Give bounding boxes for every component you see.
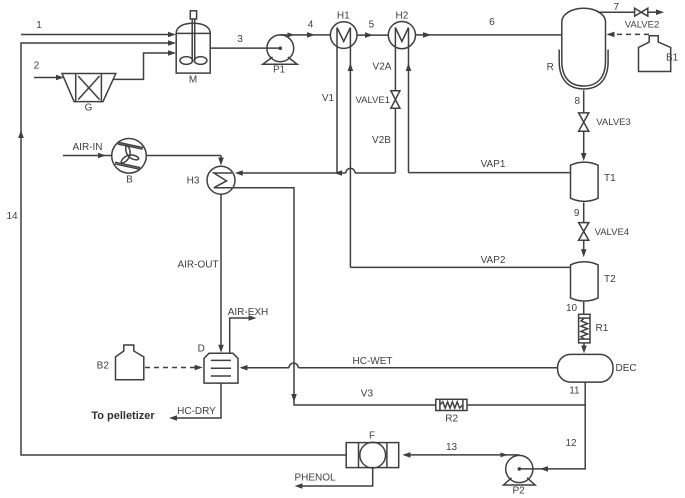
svg-text:B1: B1 [666, 53, 679, 64]
wire AIR-OUT [177, 194, 223, 353]
pump P1 [263, 35, 297, 75]
svg-text:F: F [369, 430, 375, 441]
wire V1 H1 left leg [322, 28, 337, 174]
svg-text:V2B: V2B [372, 135, 391, 146]
wire stream 2 [34, 61, 64, 81]
bottle B2 [97, 345, 144, 380]
svg-text:VALVE1: VALVE1 [355, 95, 390, 106]
blower B [112, 139, 147, 186]
wire V2A valve1 V2B [372, 28, 395, 174]
svg-text:T1: T1 [604, 173, 616, 184]
svg-text:VALVE4: VALVE4 [595, 227, 630, 238]
svg-text:VAP2: VAP2 [481, 255, 506, 266]
wire stream 14 recycle [6, 40, 346, 455]
wire V3 from H3 bottom [233, 188, 585, 405]
wire H3 feed from V1 and V2B [235, 168, 396, 175]
svg-text:AIR-EXH: AIR-EXH [228, 307, 269, 318]
svg-text:DEC: DEC [616, 363, 637, 374]
svg-text:11: 11 [569, 386, 580, 397]
wire stream 3 [210, 34, 282, 50]
bottle B1 [639, 36, 679, 72]
heat exchanger H1 [330, 11, 357, 49]
wire VAP1 riser into H2 [406, 28, 412, 173]
svg-text:H1: H1 [337, 11, 350, 22]
svg-text:B: B [126, 175, 133, 186]
wire AIR-IN [63, 142, 224, 165]
svg-text:12: 12 [565, 438, 577, 449]
dryer D [198, 343, 238, 383]
svg-text:H3: H3 [187, 176, 200, 187]
tank T1 [571, 162, 617, 201]
heat exchanger H3 [187, 166, 235, 194]
valve VALVE1 [355, 91, 399, 109]
wire stream 10 [566, 302, 584, 315]
svg-text:H2: H2 [396, 11, 409, 22]
filter R2 [436, 399, 467, 424]
pump P2 [504, 455, 536, 496]
mixer M [176, 11, 210, 86]
wire stream 7 [598, 2, 664, 15]
svg-text:To pelletizer: To pelletizer [91, 410, 155, 422]
wire B1 feed dashed [607, 32, 653, 38]
svg-text:10: 10 [566, 303, 578, 314]
valve VALVE4 [579, 223, 630, 241]
svg-text:P1: P1 [273, 64, 286, 75]
filter F [346, 430, 399, 468]
svg-text:14: 14 [6, 211, 18, 222]
wire HC-DRY [169, 383, 221, 421]
heat exchanger H2 [388, 11, 415, 49]
tank T2 [571, 262, 617, 301]
svg-text:VAP1: VAP1 [481, 159, 506, 170]
svg-text:1: 1 [36, 20, 42, 31]
svg-text:7: 7 [614, 2, 620, 13]
svg-text:M: M [189, 74, 197, 85]
svg-text:2: 2 [34, 61, 40, 72]
filter R1 [579, 314, 609, 343]
wire VAP2 riser into H1 [348, 28, 354, 268]
grinder G [62, 74, 116, 114]
wire stream 1 [21, 20, 176, 37]
svg-text:R: R [547, 62, 554, 73]
svg-text:3: 3 [237, 34, 243, 45]
wire stream 6 [416, 17, 563, 38]
svg-text:V2A: V2A [373, 62, 392, 73]
svg-text:V1: V1 [322, 93, 335, 104]
svg-text:VALVE2: VALVE2 [625, 19, 660, 30]
wire VAP1 [409, 159, 570, 173]
svg-text:9: 9 [574, 208, 580, 219]
svg-text:G: G [85, 103, 93, 114]
wire VAP2 [350, 255, 570, 268]
valve VALVE2 [625, 8, 660, 30]
wire HC-WET [240, 356, 558, 371]
svg-text:AIR-OUT: AIR-OUT [177, 259, 218, 270]
wire stream 11 12 to P2 [518, 382, 586, 472]
wire B2 feed dashed [145, 365, 203, 371]
svg-text:PHENOL: PHENOL [294, 473, 336, 484]
valve VALVE3 [579, 113, 631, 131]
wire G outlet to M [114, 50, 177, 79]
svg-text:HC-DRY: HC-DRY [177, 406, 216, 417]
wire stream 9 [574, 203, 587, 258]
svg-text:4: 4 [308, 20, 314, 31]
wire R1 to DEC [581, 343, 587, 354]
wire stream 13 [403, 442, 520, 458]
svg-text:B2: B2 [97, 361, 110, 372]
svg-text:HC-WET: HC-WET [353, 356, 393, 367]
svg-text:T2: T2 [604, 274, 616, 285]
wire stream 8 [575, 90, 587, 161]
svg-text:13: 13 [446, 442, 458, 453]
svg-text:V3: V3 [361, 389, 374, 400]
wire stream 4 [280, 20, 330, 38]
svg-text:R1: R1 [596, 323, 609, 334]
decanter DEC [558, 354, 637, 382]
wire PHENOL [294, 468, 372, 489]
svg-text:5: 5 [369, 20, 375, 31]
svg-text:D: D [198, 343, 205, 354]
reactor R [547, 8, 609, 89]
svg-text:R2: R2 [445, 414, 458, 425]
svg-text:6: 6 [489, 17, 495, 28]
svg-text:P2: P2 [512, 485, 525, 496]
svg-text:AIR-IN: AIR-IN [73, 142, 103, 153]
wire stream 5 [357, 20, 388, 38]
wire AIR-EXH [228, 307, 269, 353]
svg-text:VALVE3: VALVE3 [596, 117, 631, 128]
svg-text:8: 8 [575, 96, 581, 107]
